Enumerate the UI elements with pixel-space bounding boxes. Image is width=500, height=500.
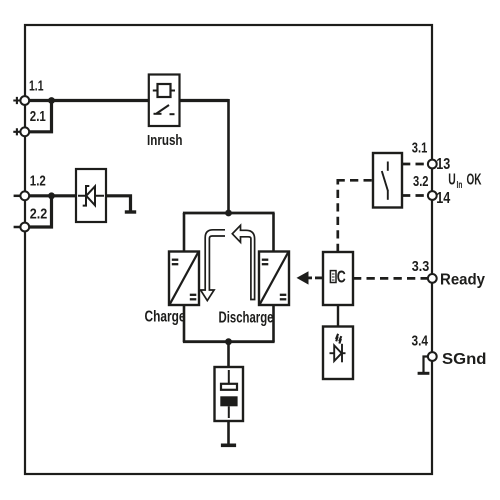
svg-text:OK: OK — [467, 172, 482, 189]
ground (SGnd) — [418, 372, 430, 375]
diode symbol: triangle — [86, 186, 95, 205]
wire: top bus to charge converter — [183, 213, 186, 252]
svg-text:U: U — [448, 171, 456, 188]
terminal 3.2 / 14 — [413, 173, 450, 207]
frame border — [25, 25, 432, 474]
svg-text:14: 14 — [436, 190, 450, 207]
supercapacitor block — [215, 367, 244, 421]
suppressor diode block — [76, 169, 106, 222]
inrush block — [149, 75, 180, 127]
label Inrush — [147, 132, 183, 149]
wire: vertical from inrush corner down to converter top bus — [227, 99, 230, 214]
missing-glyph box of µ character — [330, 271, 336, 283]
LED symbol: anode line — [330, 352, 346, 354]
switch symbol inside inrush block — [154, 113, 162, 115]
wire: terminal 2.2 bridge to node of 1.2 — [27, 196, 52, 227]
svg-text:3.1: 3.1 — [412, 140, 428, 157]
ground (supercapacitor) — [221, 443, 236, 447]
converter loop: top bus — [183, 212, 275, 215]
capacitor plate (solid) — [220, 396, 237, 406]
dashed wire: microcontroller up — [336, 180, 339, 253]
svg-text:SGnd: SGnd — [442, 351, 487, 368]
LED symbol: triangle — [334, 345, 341, 361]
svg-text:Ready: Ready — [440, 272, 485, 289]
terminal 3.1 / 13 — [412, 140, 451, 174]
wire: top bus to discharge converter — [272, 213, 275, 252]
wire: terminal 1.2 to suppressor diode block — [27, 194, 76, 197]
dashed wire: relay to terminal 14 — [402, 194, 428, 197]
wire: microcontroller to LED block — [337, 305, 339, 327]
contact symbol: upper pin — [387, 162, 389, 171]
LED symbol: light arrows — [336, 334, 338, 342]
terminal 3.4 / SGnd — [412, 333, 487, 369]
svg-text:In: In — [457, 180, 463, 191]
wire: inrush block to corner — [180, 99, 229, 102]
charge flow arrow (hollow, bends down) — [201, 230, 226, 301]
junction node top bus — [225, 210, 232, 217]
svg-text:3.4: 3.4 — [412, 333, 429, 350]
svg-text:3.2: 3.2 — [413, 173, 429, 190]
svg-text:1.2: 1.2 — [30, 173, 46, 190]
svg-text:Charge: Charge — [145, 309, 186, 326]
terminal 1.1 — [13, 77, 43, 105]
terminal 3.3 / Ready — [412, 258, 485, 289]
relay contact block — [373, 153, 402, 208]
label Charge — [145, 309, 186, 326]
charge converter block — [169, 252, 199, 306]
microcontroller block — [323, 252, 353, 305]
svg-text:1.1: 1.1 — [29, 77, 44, 94]
junction node on + rail — [48, 97, 55, 104]
wire: supercapacitor block to ground — [227, 421, 230, 444]
label UIn OK — [448, 171, 481, 191]
capacitor plate (hollow) — [221, 384, 237, 390]
label Discharge — [219, 310, 274, 327]
wire: diode block to ground — [106, 196, 131, 211]
wire: bottom bus down to supercapacitor block — [227, 342, 230, 368]
junction node bottom bus — [225, 338, 232, 345]
terminal 2.2 — [14, 206, 48, 232]
LED block — [323, 327, 353, 380]
svg-text:2.2: 2.2 — [30, 206, 48, 223]
wire: terminal 1.1 to inrush block — [27, 99, 149, 102]
SGnd pigtail to ground — [424, 357, 429, 373]
svg-text:C: C — [337, 267, 346, 287]
terminal 2.1 — [13, 108, 46, 136]
resistor symbol inside inrush block — [153, 90, 175, 92]
junction node on - rail — [48, 192, 55, 199]
wire: charge converter to bottom bus — [183, 305, 186, 342]
terminal 1.2 — [14, 173, 46, 201]
svg-text:Discharge: Discharge — [219, 310, 274, 327]
dashed wire: to relay block — [337, 179, 374, 182]
converter loop: bottom bus — [183, 340, 275, 343]
wire: terminal 2.1 bridge to node of 1.1 — [27, 101, 52, 132]
LED symbol: cathode bar — [341, 344, 343, 363]
discharge converter block — [259, 252, 289, 306]
dashed wire: microcontroller to Ready terminal — [353, 277, 428, 280]
svg-text:Inrush: Inrush — [147, 132, 183, 149]
contact symbol: lower pin — [387, 191, 389, 200]
wire: discharge converter to bottom bus — [272, 305, 275, 342]
contact symbol: blade — [382, 171, 388, 191]
arrow from microcontroller to discharge converter — [297, 271, 324, 284]
ground (after diode block) — [125, 210, 136, 213]
svg-text:3.3: 3.3 — [412, 258, 430, 275]
diode symbol: cathode bar with hooks — [83, 186, 90, 206]
svg-text:2.1: 2.1 — [30, 108, 46, 125]
discharge flow arrow (hollow, bends up, points left) — [232, 225, 254, 299]
dashed wire: relay to terminal 13 — [402, 163, 428, 166]
